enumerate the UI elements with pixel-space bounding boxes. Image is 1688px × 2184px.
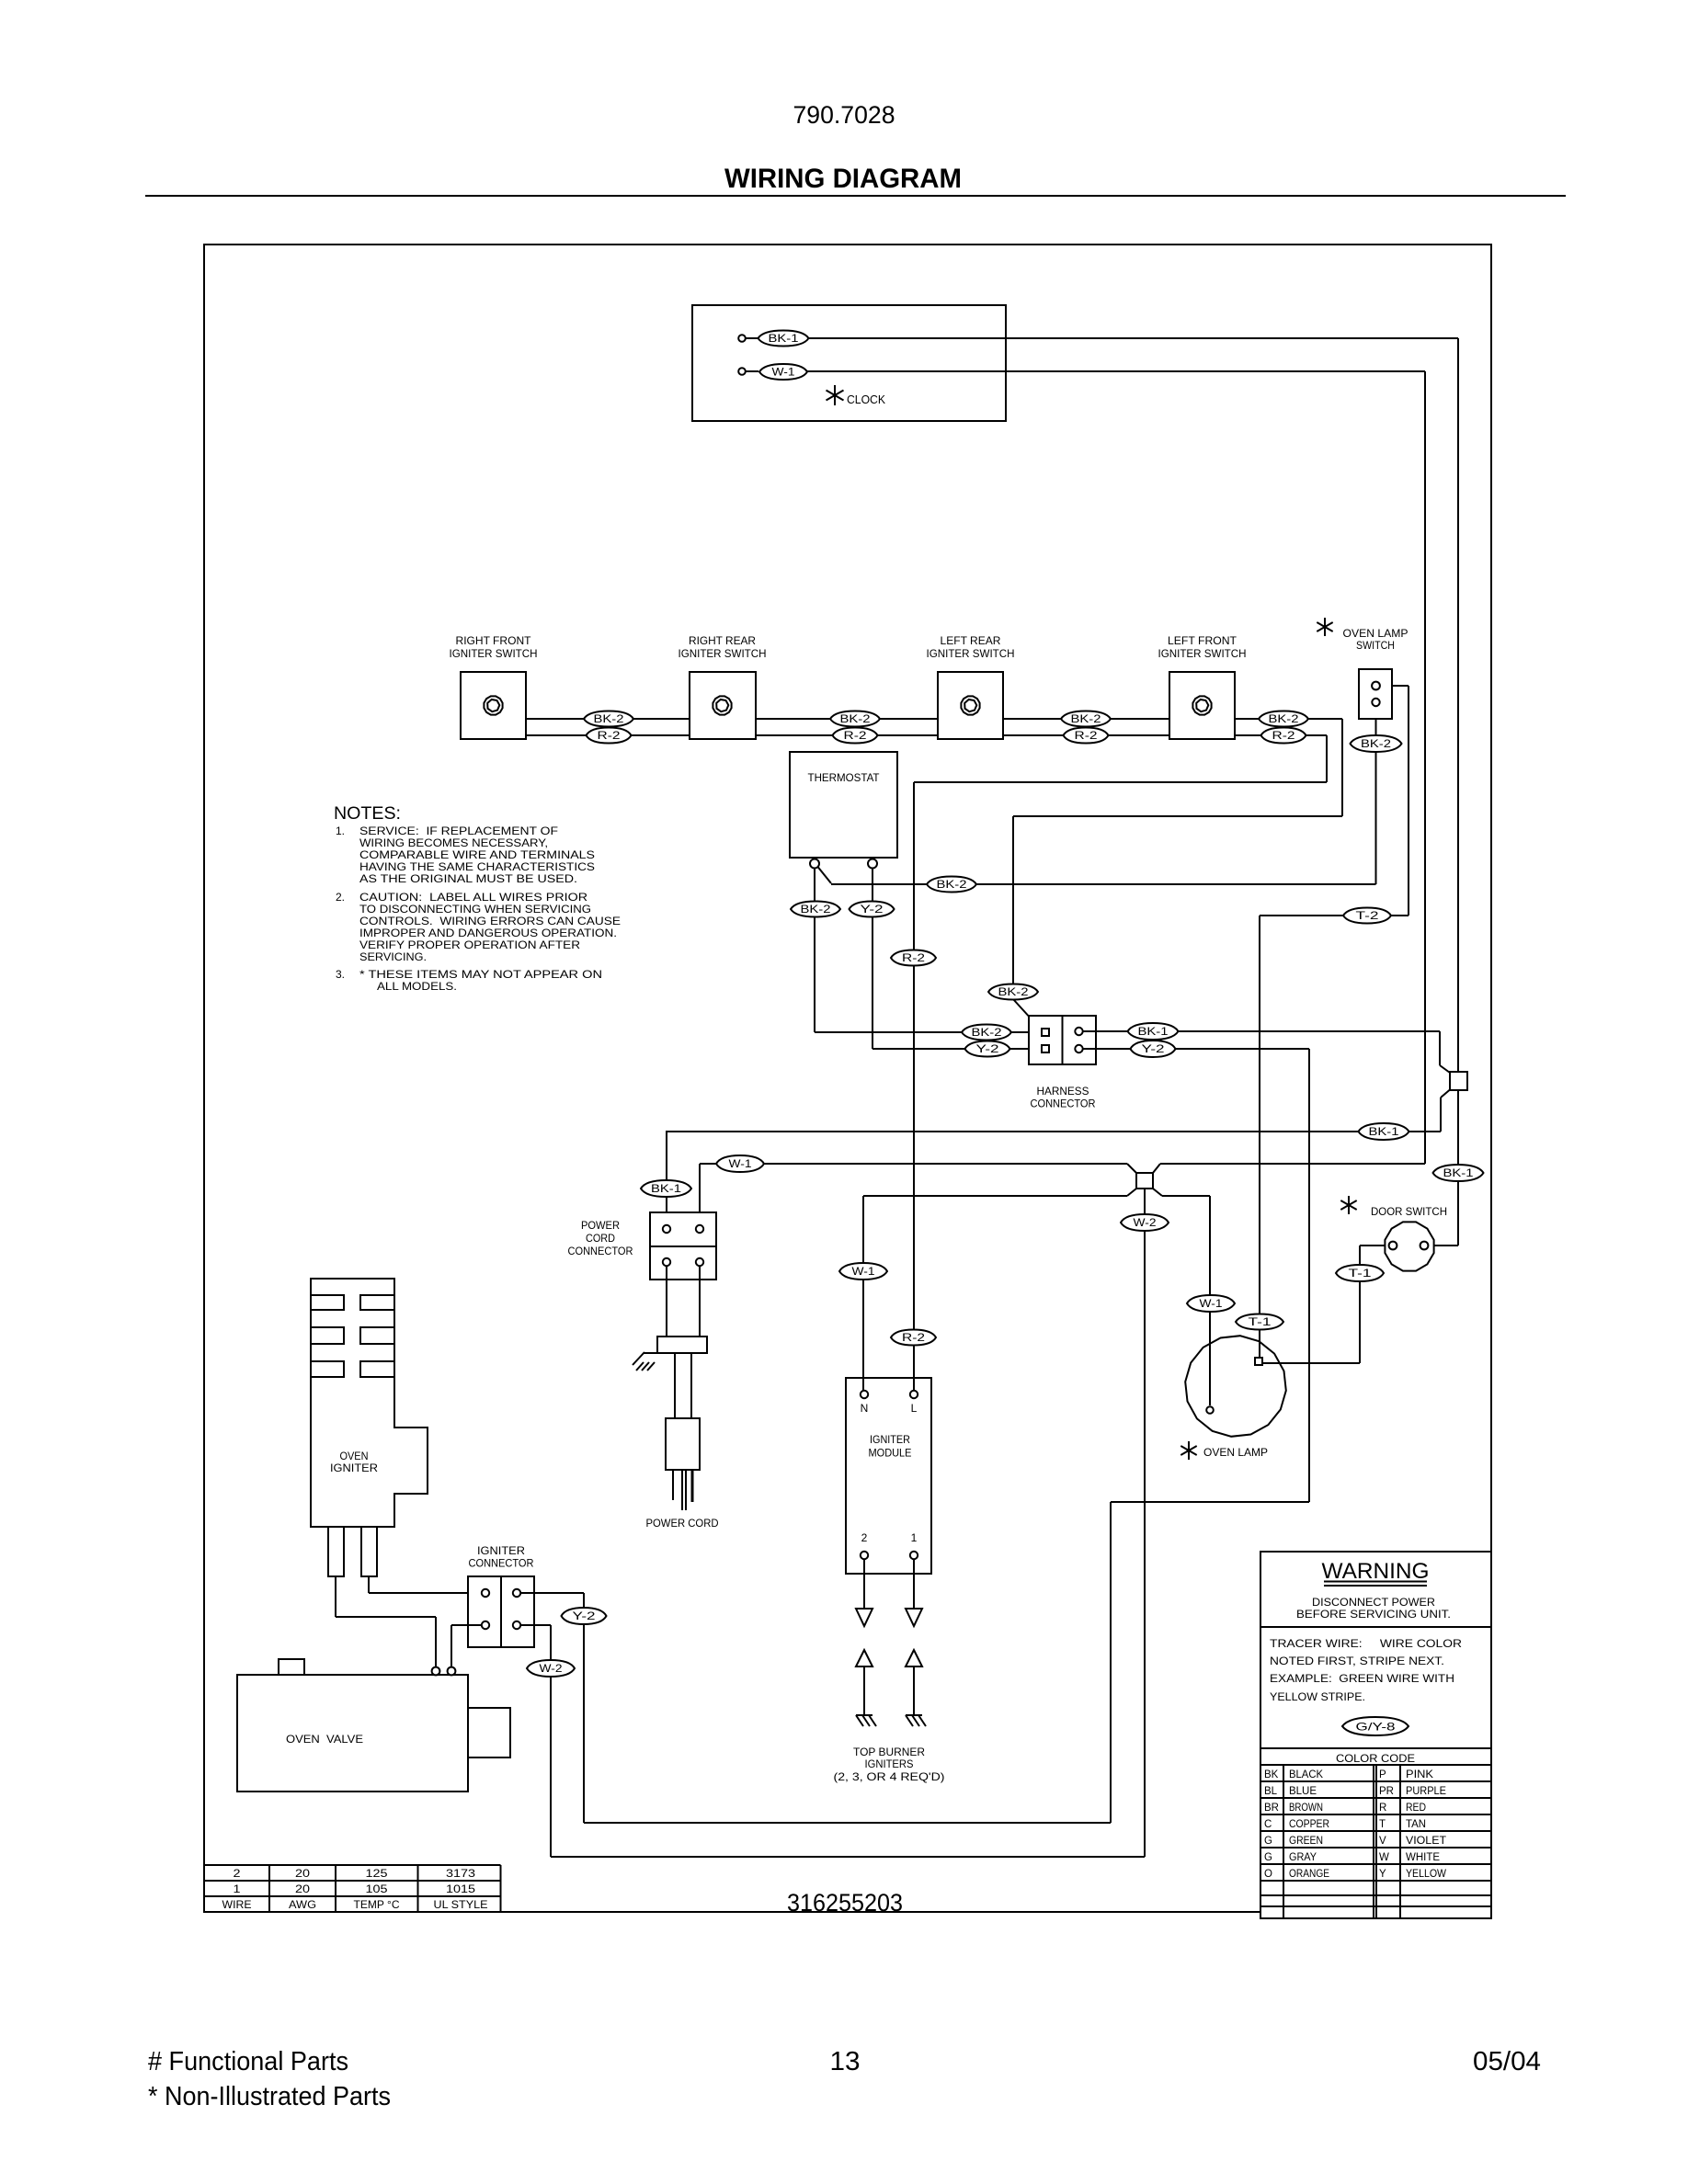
wire label BK-2 above harness: [988, 984, 1038, 1000]
igniter module pin L: [910, 1391, 918, 1398]
svg-text:WARNING: WARNING: [1322, 1559, 1430, 1584]
wire W-2 igniter connector to junction: [520, 1624, 551, 1626]
svg-text:* Non-Illustrated Parts: * Non-Illustrated Parts: [148, 2082, 391, 2111]
oven igniter body: [311, 1279, 428, 1527]
clock box: [692, 305, 1006, 421]
wire label W-1 at clock: [759, 364, 807, 380]
svg-text:NOTES:: NOTES:: [334, 804, 401, 824]
igniter module pin labels 2 and 1: [861, 1531, 918, 1544]
svg-text:TOP BURNER: TOP BURNER: [853, 1746, 925, 1758]
wire label R-2 (row #1): [587, 728, 632, 744]
wire label BK-2 (row #4): [1259, 711, 1308, 727]
door switch pin right: [1420, 1242, 1429, 1250]
svg-text:1: 1: [911, 1531, 918, 1544]
svg-text:POWER CORD: POWER CORD: [646, 1517, 719, 1530]
svg-text:W-1: W-1: [1200, 1299, 1223, 1310]
svg-text:BK-2: BK-2: [594, 714, 624, 725]
inline connector square on BK-1 wire: [1450, 1072, 1467, 1090]
wires connector to power cord plug: [667, 1266, 700, 1337]
igniter connector pin top-right: [513, 1589, 520, 1597]
svg-text:W-2: W-2: [540, 1664, 563, 1675]
thermostat pin left: [810, 859, 819, 869]
power cord prongs: [673, 1470, 692, 1510]
svg-text:WIRING DIAGRAM: WIRING DIAGRAM: [724, 164, 962, 194]
wire R-2 igniter switch row (bottom): [526, 734, 1327, 736]
svg-text:CLOCK: CLOCK: [847, 392, 885, 406]
svg-text:BK-1: BK-1: [1443, 1168, 1474, 1179]
svg-text:BK-2: BK-2: [840, 714, 871, 725]
svg-text:GREEN: GREEN: [1289, 1836, 1323, 1847]
svg-text:IGNITER: IGNITER: [477, 1544, 525, 1557]
oven igniter terminals: [328, 1527, 377, 1576]
igniter module label: [869, 1433, 912, 1460]
power cord connector box: [650, 1212, 716, 1280]
wire BK-2 thermostat to harness connector: [815, 868, 1042, 1032]
svg-text:W-1: W-1: [729, 1159, 752, 1170]
svg-text:OVEN LAMP: OVEN LAMP: [1343, 627, 1409, 640]
wire BK-1 inline connector to door switch: [1428, 1090, 1458, 1246]
label RIGHT REAR IGNITER SWITCH: [679, 634, 767, 660]
wire gauge table grid: [204, 1865, 501, 1912]
note 3 asterisk items: [336, 968, 602, 993]
harness connector box: [1029, 1016, 1096, 1064]
svg-text:BK: BK: [1264, 1769, 1279, 1780]
wire label BK-2 (row #3): [1061, 711, 1111, 727]
svg-text:R: R: [1379, 1803, 1386, 1814]
svg-text:L: L: [911, 1402, 918, 1415]
svg-text:1: 1: [234, 1884, 241, 1895]
svg-text:IGNITER SWITCH: IGNITER SWITCH: [679, 647, 767, 660]
oven lamp switch asterisk: [1324, 618, 1326, 636]
tracer wire text: [1270, 1637, 1462, 1703]
svg-text:YELLOW: YELLOW: [1406, 1869, 1446, 1880]
right rear igniter switch box: [690, 672, 756, 739]
harness connector label: [1031, 1085, 1096, 1110]
wire BK-1 from clock to right side: [808, 338, 1458, 1072]
wire oven igniter left terminal to oven valve: [336, 1576, 436, 1667]
power cord plug lower body: [666, 1418, 700, 1470]
oven lamp asterisk: [1188, 1441, 1190, 1460]
igniter connector pin top-left: [482, 1589, 489, 1597]
svg-text:TRACER WIRE: WIRE COLOR: TRACER WIRE: WIRE COLOR: [1270, 1637, 1462, 1650]
svg-text:BLACK: BLACK: [1289, 1769, 1323, 1780]
wire label BK-1 at clock: [758, 331, 809, 347]
oven valve top fitting: [279, 1659, 304, 1675]
svg-text:20: 20: [295, 1869, 310, 1880]
wire label W-1 above oven lamp: [1187, 1295, 1235, 1312]
wire W-2 junction to igniter connector: [551, 1189, 1145, 1857]
wire label T-2: [1343, 908, 1391, 924]
svg-text:WIRE: WIRE: [222, 1900, 252, 1911]
svg-text:R-2: R-2: [902, 953, 925, 964]
svg-text:13: 13: [830, 2047, 861, 2076]
svg-text:BK-2: BK-2: [1269, 714, 1299, 725]
igniter connector pin bottom-left: [482, 1621, 489, 1629]
wire label Y-2 right of harness: [1131, 1041, 1176, 1057]
svg-text:BK-2: BK-2: [801, 904, 831, 916]
wire oven igniter right terminal to igniter connector: [369, 1576, 482, 1593]
wire Y-2 harness to igniter connector (long return): [584, 1049, 1309, 1823]
power cord connector label: [568, 1219, 633, 1257]
svg-text:125: 125: [366, 1869, 388, 1880]
svg-text:IGNITERS: IGNITERS: [865, 1757, 914, 1770]
svg-text:BK-2: BK-2: [1361, 739, 1391, 750]
svg-text:W-1: W-1: [772, 368, 795, 379]
power cord stem: [675, 1353, 691, 1418]
oven valve body: [237, 1675, 468, 1792]
wire BK-2 from row to harness connector: [1013, 719, 1342, 1030]
svg-text:BEFORE SERVICING UNIT.: BEFORE SERVICING UNIT.: [1296, 1608, 1451, 1621]
color code table grid: [1260, 1765, 1491, 1918]
svg-text:Y-2: Y-2: [573, 1611, 596, 1622]
svg-text:Y-2: Y-2: [1142, 1044, 1165, 1055]
svg-text:UL STYLE: UL STYLE: [434, 1900, 488, 1911]
svg-text:3173: 3173: [446, 1869, 475, 1880]
warning box: [1260, 1552, 1491, 1918]
lamp switch pin bottom: [1372, 699, 1379, 706]
svg-text:TAN: TAN: [1406, 1819, 1426, 1830]
harness pin right-bottom: [1075, 1045, 1082, 1052]
wire label Y-2 near igniter connector: [562, 1608, 607, 1624]
warning title: [1322, 1559, 1430, 1586]
wire Y-2 thermostat to harness connector: [873, 868, 1042, 1049]
oven lamp pin right: [1255, 1358, 1262, 1365]
svg-text:PURPLE: PURPLE: [1406, 1786, 1446, 1797]
svg-text:BK-2: BK-2: [1071, 714, 1101, 725]
harness pin left-bottom: [1042, 1045, 1049, 1052]
svg-text:CONNECTOR: CONNECTOR: [568, 1245, 633, 1257]
wire label W-2 near oven valve: [527, 1660, 575, 1677]
wire BK-2 igniter switch row (top): [526, 718, 1342, 720]
svg-text:BK-1: BK-1: [1138, 1027, 1169, 1038]
svg-text:2.: 2.: [336, 891, 345, 904]
wire label BK-2 below thermostat: [791, 902, 840, 917]
spark gap arrows output 1: [906, 1609, 922, 1715]
svg-text:PINK: PINK: [1406, 1769, 1433, 1780]
clock terminal lead wires: [746, 337, 758, 339]
svg-text:BK-1: BK-1: [1369, 1127, 1399, 1138]
wire BK-2 lamp switch down to thermostat wire: [1375, 706, 1377, 884]
svg-text:T-1: T-1: [1349, 1268, 1372, 1280]
thermostat box: [790, 752, 897, 858]
wire label BK-2 left of harness: [962, 1025, 1011, 1041]
svg-text:OVEN LAMP: OVEN LAMP: [1203, 1446, 1268, 1459]
power cord plug body: [657, 1337, 707, 1353]
svg-text:OVEN VALVE: OVEN VALVE: [286, 1733, 363, 1746]
svg-text:BK-1: BK-1: [769, 334, 799, 345]
label RIGHT FRONT IGNITER SWITCH: [450, 634, 538, 660]
wire Y-2 igniter connector to return path: [520, 1592, 584, 1594]
igniter module pin labels N and L: [861, 1402, 918, 1415]
svg-text:THERMOSTAT: THERMOSTAT: [808, 771, 881, 784]
svg-text:MODULE: MODULE: [869, 1447, 912, 1460]
svg-text:R-2: R-2: [844, 731, 867, 742]
svg-text:O: O: [1264, 1869, 1272, 1880]
wire label R-2 (lower): [891, 1330, 936, 1346]
wire label R-2 (row #4): [1261, 728, 1306, 744]
svg-text:TEMP °C: TEMP °C: [354, 1900, 400, 1911]
oven igniter label: [330, 1450, 378, 1474]
svg-text:CORD: CORD: [586, 1232, 615, 1245]
power cord connector pin top-left: [663, 1225, 670, 1233]
door switch body circle: [1385, 1222, 1433, 1270]
svg-text:1015: 1015: [446, 1884, 475, 1895]
svg-text:W: W: [1379, 1852, 1389, 1863]
left front igniter switch box: [1169, 672, 1235, 739]
svg-text:R-2: R-2: [1075, 731, 1098, 742]
wire label W-1 above igniter module: [839, 1263, 887, 1280]
wire label BK-1 right of harness: [1128, 1023, 1179, 1040]
wire W-1 junction to igniter module N: [863, 1196, 1127, 1391]
color code table entries: [1264, 1769, 1446, 1880]
svg-text:RIGHT FRONT: RIGHT FRONT: [456, 634, 532, 647]
wire label R-2 (row #2): [833, 728, 878, 744]
svg-text:IGNITER SWITCH: IGNITER SWITCH: [927, 647, 1015, 660]
svg-text:Y-2: Y-2: [861, 904, 884, 916]
igniter connector box: [468, 1576, 534, 1647]
power cord ground symbol: [633, 1352, 657, 1371]
svg-text:T-1: T-1: [1249, 1317, 1272, 1328]
wire W-1 power cord connector to junction: [700, 1164, 1127, 1225]
svg-text:BK-1: BK-1: [651, 1184, 681, 1195]
svg-text:1.: 1.: [336, 825, 345, 837]
svg-text:YELLOW STRIPE.: YELLOW STRIPE.: [1270, 1690, 1365, 1703]
svg-text:COLOR CODE: COLOR CODE: [1336, 1752, 1415, 1765]
wire label BK-2 (row #2): [830, 711, 880, 727]
svg-text:ORANGE: ORANGE: [1289, 1869, 1329, 1880]
harness pin right-top: [1075, 1028, 1082, 1035]
svg-text:BLUE: BLUE: [1289, 1786, 1317, 1797]
wire door switch to oven lamp: [1262, 1246, 1388, 1363]
svg-text:BROWN: BROWN: [1289, 1803, 1323, 1814]
wire label BK-1 at power cord connector: [641, 1180, 691, 1197]
clock asterisk: [834, 385, 836, 405]
svg-text:CONNECTOR: CONNECTOR: [1031, 1098, 1096, 1110]
wires module outputs to spark gaps: [864, 1559, 914, 1609]
oven lamp pin left: [1206, 1406, 1214, 1414]
svg-text:HAVING THE SAME CHARACTERISTIC: HAVING THE SAME CHARACTERISTICS: [359, 860, 595, 873]
igniter module pin N: [861, 1391, 868, 1398]
note 2 caution: [336, 891, 621, 963]
warning text: [1296, 1596, 1451, 1621]
power cord connector pin bottom-right: [696, 1258, 703, 1266]
svg-text:05/04: 05/04: [1473, 2047, 1541, 2076]
svg-text:NOTED FIRST, STRIPE NEXT.: NOTED FIRST, STRIPE NEXT.: [1270, 1655, 1444, 1667]
svg-text:G/Y-8: G/Y-8: [1356, 1720, 1396, 1733]
left rear igniter switch box: [938, 672, 1003, 739]
wire label W-1 near power cord connector: [716, 1155, 764, 1172]
wire label Y-2 left of harness: [965, 1041, 1010, 1057]
igniter module box: [846, 1378, 931, 1574]
oven valve terminal right: [448, 1667, 456, 1676]
wire BK-2 thermostat to lamp switch: [818, 867, 1376, 884]
power cord connector pin bottom-left: [663, 1258, 670, 1266]
svg-text:BL: BL: [1264, 1786, 1278, 1797]
heading rule: [145, 195, 1566, 197]
label LEFT FRONT IGNITER SWITCH: [1158, 634, 1247, 660]
svg-text:LEFT REAR: LEFT REAR: [941, 634, 1001, 647]
color code divider: [1260, 1747, 1491, 1749]
svg-text:(2, 3, OR 4 REQ'D): (2, 3, OR 4 REQ'D): [834, 1770, 945, 1783]
oven valve terminal left: [432, 1667, 440, 1676]
wire T-2 lamp switch to oven lamp: [1260, 686, 1409, 1358]
svg-text:CONNECTOR: CONNECTOR: [469, 1557, 534, 1570]
top burner igniter ground 1: [906, 1714, 922, 1716]
svg-text:VIOLET: VIOLET: [1406, 1836, 1446, 1847]
wire label R-2 (upper): [891, 950, 936, 966]
svg-text:V: V: [1379, 1836, 1386, 1847]
svg-text:CONTROLS. WIRING ERRORS CAN C: CONTROLS. WIRING ERRORS CAN CAUSE: [359, 915, 621, 927]
svg-text:SERVICING.: SERVICING.: [359, 950, 427, 963]
igniter module pin 1: [910, 1552, 918, 1559]
tracer example label G/Y-8: [1342, 1717, 1409, 1735]
svg-text:POWER: POWER: [581, 1219, 620, 1232]
svg-text:3.: 3.: [336, 968, 345, 981]
svg-text:Y-2: Y-2: [976, 1044, 999, 1055]
wire label Y-2 below thermostat: [850, 902, 895, 917]
svg-text:R-2: R-2: [598, 731, 621, 742]
svg-text:COMPARABLE WIRE AND TERMINALS: COMPARABLE WIRE AND TERMINALS: [359, 848, 595, 861]
svg-text:CAUTION: LABEL ALL WIRES PRIO: CAUTION: LABEL ALL WIRES PRIOR: [359, 891, 587, 904]
svg-text:GRAY: GRAY: [1289, 1852, 1317, 1863]
svg-text:105: 105: [366, 1884, 388, 1895]
svg-text:EXAMPLE: GREEN WIRE WITH: EXAMPLE: GREEN WIRE WITH: [1270, 1672, 1454, 1685]
right front igniter switch box: [461, 672, 526, 739]
wire W-1 junction to oven lamp: [1162, 1196, 1210, 1405]
svg-text:RIGHT REAR: RIGHT REAR: [689, 634, 756, 647]
svg-text:WIRING BECOMES NECESSARY,: WIRING BECOMES NECESSARY,: [359, 836, 548, 849]
svg-text:IGNITER SWITCH: IGNITER SWITCH: [450, 647, 538, 660]
wire label T-1 on lamp feed: [1236, 1314, 1283, 1330]
svg-text:AS THE ORIGINAL MUST BE USED.: AS THE ORIGINAL MUST BE USED.: [359, 872, 577, 885]
svg-text:VERIFY PROPER OPERATION AFTER: VERIFY PROPER OPERATION AFTER: [359, 938, 580, 951]
wire label BK-2 (row #1): [584, 711, 633, 727]
svg-text:IMPROPER AND DANGEROUS OPERATI: IMPROPER AND DANGEROUS OPERATION.: [359, 927, 617, 939]
svg-text:PR: PR: [1379, 1786, 1394, 1797]
svg-text:2: 2: [234, 1869, 241, 1880]
svg-text:DOOR SWITCH: DOOR SWITCH: [1371, 1205, 1447, 1218]
svg-text:BR: BR: [1264, 1803, 1279, 1814]
wire label BK-1 near inline connector: [1359, 1123, 1409, 1140]
svg-text:OVEN: OVEN: [340, 1450, 369, 1462]
oven lamp bulb circle: [1185, 1336, 1286, 1437]
svg-text:790.7028: 790.7028: [793, 101, 895, 129]
svg-text:AWG: AWG: [289, 1900, 316, 1911]
svg-text:W-2: W-2: [1134, 1218, 1157, 1229]
svg-text:COPPER: COPPER: [1289, 1819, 1329, 1830]
wire gauge table entries: [222, 1869, 488, 1911]
door switch asterisk: [1348, 1196, 1350, 1214]
svg-text:G: G: [1264, 1836, 1272, 1847]
svg-text:N: N: [861, 1402, 869, 1415]
svg-text:SERVICE: IF REPLACEMENT OF: SERVICE: IF REPLACEMENT OF: [359, 825, 558, 837]
clock terminal circle BK-1: [738, 335, 746, 342]
wire label BK-2 mid (thermostat-lamp): [927, 877, 976, 893]
svg-text:R-2: R-2: [902, 1333, 925, 1344]
wire label R-2 (row #3): [1064, 728, 1109, 744]
oven igniter slots: [311, 1295, 394, 1377]
top burner igniter ground 2: [856, 1714, 873, 1716]
svg-text:HARNESS: HARNESS: [1037, 1085, 1089, 1098]
diagram border frame: [204, 245, 1491, 1912]
svg-text:BK-2: BK-2: [937, 880, 967, 891]
svg-text:316255203: 316255203: [787, 1889, 903, 1917]
svg-text:2: 2: [861, 1531, 868, 1544]
wire label BK-2 below lamp switch: [1351, 735, 1402, 752]
warning divider: [1260, 1626, 1491, 1628]
note 1 service: [336, 825, 595, 885]
spark gap arrows output 2: [856, 1609, 873, 1715]
svg-text:T-2: T-2: [1356, 911, 1379, 922]
wire W-1 from clock to right side: [806, 371, 1425, 1164]
svg-text:C: C: [1264, 1819, 1272, 1830]
wire BK-1 harness to inline connector: [1083, 1031, 1451, 1073]
wire label BK-1 above door switch: [1433, 1165, 1484, 1181]
wire label T-1 below door switch: [1336, 1265, 1384, 1281]
wire label W-2 below junction: [1121, 1214, 1169, 1231]
svg-text:IGNITER: IGNITER: [330, 1462, 378, 1474]
wire igniter connector to oven valve right terminal: [451, 1625, 482, 1667]
svg-text:IGNITER: IGNITER: [870, 1433, 910, 1446]
svg-text:BK-2: BK-2: [998, 987, 1029, 998]
junction square node: [1127, 1164, 1162, 1196]
wire BK-1 power cord connector to inline connector: [666, 1090, 1450, 1226]
svg-text:R-2: R-2: [1272, 731, 1295, 742]
clock terminal circle W-1: [738, 368, 746, 375]
svg-text:* THESE ITEMS MAY NOT APPEAR O: * THESE ITEMS MAY NOT APPEAR ON: [359, 968, 602, 981]
lamp switch pin top: [1372, 682, 1380, 690]
svg-text:SWITCH: SWITCH: [1356, 639, 1395, 652]
svg-text:RED: RED: [1406, 1803, 1426, 1814]
svg-text:BK-2: BK-2: [972, 1028, 1002, 1039]
svg-text:20: 20: [295, 1884, 310, 1895]
power cord connector pin top-right: [696, 1225, 703, 1233]
harness pin left-top: [1042, 1029, 1049, 1036]
oven lamp switch box: [1359, 669, 1392, 719]
svg-text:Y: Y: [1379, 1869, 1386, 1880]
oven lamp switch label: [1343, 627, 1409, 652]
igniter connector label: [469, 1544, 534, 1570]
svg-text:# Functional Parts: # Functional Parts: [148, 2047, 348, 2076]
svg-text:WHITE: WHITE: [1406, 1852, 1440, 1863]
oven valve right fitting: [468, 1708, 510, 1757]
wire R-2 from row down to igniter module L: [914, 735, 1327, 1391]
door switch pin left: [1389, 1242, 1397, 1250]
thermostat pin right: [868, 859, 877, 869]
svg-text:G: G: [1264, 1852, 1272, 1863]
svg-text:LEFT FRONT: LEFT FRONT: [1168, 634, 1237, 647]
igniter connector pin bottom-right: [513, 1621, 520, 1629]
label LEFT REAR IGNITER SWITCH: [927, 634, 1015, 660]
svg-text:TO DISCONNECTING WHEN SERVICIN: TO DISCONNECTING WHEN SERVICING: [359, 903, 591, 916]
igniter module pin 2: [861, 1552, 868, 1559]
svg-text:T: T: [1379, 1819, 1386, 1830]
svg-text:IGNITER SWITCH: IGNITER SWITCH: [1158, 647, 1247, 660]
top burner igniters label: [834, 1746, 945, 1783]
svg-text:W-1: W-1: [852, 1267, 875, 1278]
wire W-1 junction to clock W-1 riser: [1160, 1163, 1425, 1165]
svg-text:P: P: [1379, 1769, 1386, 1780]
svg-text:ALL MODELS.: ALL MODELS.: [377, 980, 457, 993]
svg-text:DISCONNECT POWER: DISCONNECT POWER: [1312, 1596, 1435, 1609]
